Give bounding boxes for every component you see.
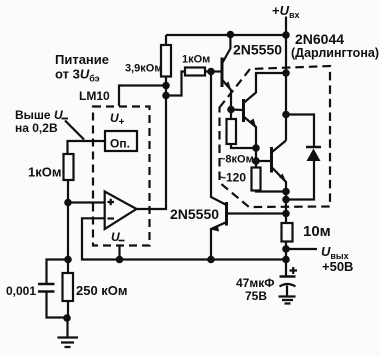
resistor R3 1кОм body: [64, 154, 74, 180]
wire node B jog to R2 left lead: [166, 72, 185, 96]
node K junction: [64, 256, 72, 264]
transistor Q3 emitter: [244, 117, 257, 149]
wire node F down to R6: [255, 161, 257, 168]
svg-text:+50В: +50В: [322, 259, 353, 274]
2N6044 dashed box outline: [220, 66, 331, 207]
resistor R4 250кОм body: [63, 273, 74, 301]
wire U- pin to bottom rail: [118, 246, 120, 260]
wire node K left to C1: [47, 260, 69, 284]
svg-text:U+: U+: [110, 111, 125, 128]
capacitor C1 0,001 top plate: [38, 283, 55, 286]
ground symbol left: [58, 338, 79, 348]
wire node F to Q4 base: [256, 160, 271, 162]
wire R1 bottom lead to node A: [165, 77, 167, 87]
ground symbol right: [279, 297, 296, 304]
wire node K down to R4: [67, 260, 69, 274]
node Uвых junction: [282, 245, 290, 253]
junction U- pin on bottom rail: [116, 256, 124, 264]
node C junction: [207, 68, 215, 76]
wire Uвых output stub: [286, 248, 317, 250]
node H junction: [282, 196, 290, 204]
transistor Q4 emitter arrow: [279, 174, 287, 183]
callout line Vyshe label: [65, 121, 84, 140]
resistor R7 10м body: [282, 223, 293, 242]
wire node C down to Q2 collector: [211, 72, 226, 205]
wire node B down to op-amp output: [137, 96, 167, 210]
wire node J down to node K: [67, 203, 69, 260]
op-amp reference block Оп. box: [105, 131, 137, 151]
transistor Q3 base bar: [242, 99, 245, 122]
node J junction: [64, 199, 72, 207]
transistor Q4 collector: [272, 141, 286, 153]
resistor R6 120 body: [252, 168, 261, 191]
wire R5 bottom jog to node E: [231, 144, 256, 148]
wire C1 bottom to node L: [47, 293, 68, 318]
wire R1 top lead: [165, 35, 167, 45]
junction Q3 collector: [282, 69, 290, 77]
diode D1 cathode bar: [306, 146, 321, 149]
junction diode branch: [282, 111, 290, 119]
svg-text:LM10: LM10: [79, 89, 110, 103]
svg-text:+Uвх: +Uвх: [272, 3, 300, 20]
op-amp U1 triangle: [105, 192, 137, 230]
node G junction: [282, 188, 290, 196]
svg-text:U: U: [111, 230, 120, 244]
wire C2 to ground: [286, 286, 288, 297]
LM10 dashed box: [93, 107, 150, 246]
capacitor C1 bottom plate: [38, 290, 55, 293]
wire corner down to R3: [66, 140, 68, 154]
wire node A to op-amp supply pin (Оп. box top): [119, 86, 166, 107]
svg-text:(Дарлингтона): (Дарлингтона): [291, 46, 379, 60]
svg-text:250 кОм: 250 кОм: [76, 283, 128, 298]
svg-text:75В: 75В: [245, 289, 267, 303]
wire bottom common rail: [82, 218, 286, 259]
wire main vertical +Uвх to Q4 collector: [285, 35, 287, 141]
transistor Q1 emitter: [222, 80, 231, 110]
svg-text:1кОм: 1кОм: [182, 54, 210, 66]
svg-text:~8кОм: ~8кОм: [219, 154, 254, 166]
svg-text:Оп.: Оп.: [110, 137, 130, 151]
transistor Q2 2N5550 base bar: [225, 202, 228, 226]
svg-text:3,9кОм: 3,9кОм: [125, 63, 163, 75]
svg-text:от 3Uбэ: от 3Uбэ: [55, 67, 100, 84]
junction +Uвх rail: [282, 31, 290, 39]
svg-text:~120: ~120: [219, 171, 246, 185]
bottom rail right junction: [282, 256, 290, 264]
wire R6 bottom to node G: [256, 191, 286, 192]
transistor Q3 emitter arrow: [250, 119, 257, 129]
node F junction: [252, 157, 260, 165]
wire node L to ground: [66, 318, 68, 337]
wire Q4 emitter node G to 10m resistor: [285, 192, 287, 224]
capacitor C2 plus sign: [290, 267, 298, 274]
resistor R2 1кОм body: [185, 68, 205, 76]
node D junction: [227, 106, 235, 114]
node I junction: [282, 210, 290, 218]
node L junction: [63, 314, 71, 322]
resistor R5 8кОм body: [227, 119, 237, 144]
transistor Q3 collector: [244, 73, 287, 103]
transistor Q4 base bar: [270, 147, 273, 173]
wire main vertical to capacitor C2: [285, 260, 287, 277]
wire node Uвых to bottom node: [285, 249, 287, 260]
wire diode branch top: [286, 115, 314, 148]
junction Q2 emitter on bottom rail: [207, 256, 215, 264]
svg-text:47мкФ: 47мкФ: [236, 276, 274, 290]
wire top rail from R1 top to +Uvx node: [166, 34, 286, 36]
wire node A to node B: [165, 86, 167, 96]
svg-text:2N5550: 2N5550: [233, 42, 282, 58]
junction Q1 collector on rail: [227, 31, 235, 39]
diode D1 triangle: [307, 149, 321, 162]
wire R2 right lead to node C: [205, 70, 211, 72]
node A junction: [162, 82, 170, 90]
svg-text:1кОм: 1кОм: [28, 165, 61, 180]
svg-text:Питание: Питание: [55, 52, 109, 67]
resistor R1 3,9кОм body: [161, 45, 171, 77]
wire R3 bottom to node J: [67, 180, 69, 203]
op-amp plus sign: [108, 199, 115, 206]
transistor Q1 emitter arrow: [225, 82, 232, 92]
wire diode bottom return to node H: [286, 161, 314, 200]
svg-text:Выше U: Выше U: [15, 108, 63, 122]
op-amp minus sign: [108, 217, 115, 219]
wire node J to op-amp plus input: [68, 201, 105, 203]
wire R7 bottom to node Uвых: [285, 242, 287, 250]
node +Uвх terminal wire: [285, 17, 287, 36]
wire Q2 base to node I: [228, 212, 286, 214]
svg-text:2N6044: 2N6044: [295, 31, 344, 47]
wire corner Vyshe node to Оп. box: [67, 140, 106, 142]
wire node D to Q3 base: [231, 108, 243, 111]
node B junction: [162, 92, 170, 100]
wire node C to Q1 base: [211, 70, 221, 72]
transistor Q4 emitter: [272, 168, 286, 192]
wire node D down to R5: [230, 110, 232, 120]
capacitor C2 47мкФ top plate: [280, 275, 296, 278]
transistor Q2 emitter arrow: [211, 227, 220, 232]
svg-text:0,001: 0,001: [6, 284, 36, 298]
svg-text:на 0,2В: на 0,2В: [15, 121, 58, 135]
svg-text:2N5550: 2N5550: [170, 206, 219, 222]
node E junction: [252, 144, 260, 152]
transistor Q1 2N5550 base bar: [221, 58, 224, 88]
transistor Q2 emitter: [211, 223, 226, 260]
svg-text:10м: 10м: [303, 223, 331, 240]
wire node E to node F: [255, 148, 257, 161]
transistor Q1 collector: [222, 35, 230, 64]
capacitor C2 bottom plate curved: [280, 284, 296, 287]
wire R4 bottom to node L: [67, 301, 69, 318]
